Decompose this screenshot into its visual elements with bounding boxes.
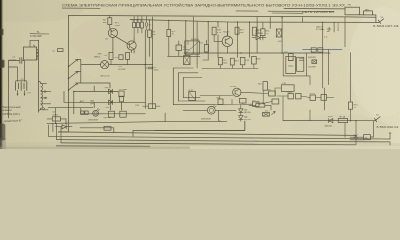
- resistor R12: [126, 52, 130, 59]
- diode VD9: [239, 109, 243, 113]
- resistor R17b: [256, 104, 265, 107]
- svg-text:КТ315Б: КТ315Б: [118, 69, 126, 71]
- svg-text:КД202В: КД202В: [308, 57, 316, 59]
- svg-text:«ХЛ»: «ХЛ»: [277, 41, 283, 43]
- svg-text:КД105Б: КД105Б: [325, 125, 333, 127]
- resistor R25: [218, 99, 223, 104]
- diode column wire: [240, 105, 242, 122]
- capacitor C17: [311, 48, 316, 52]
- regulator DA2 box: [286, 56, 296, 73]
- diode VD13: [296, 94, 302, 99]
- socket XS1: [364, 135, 371, 140]
- bottom row wires: [81, 113, 146, 115]
- diode VD3: [64, 100, 145, 104]
- svg-text:СХЕМА ЭЛЕКТРИЧЕСКАЯ ПРИНЦИПИАЛ: СХЕМА ЭЛЕКТРИЧЕСКАЯ ПРИНЦИПИАЛЬНАЯ УСТРО…: [62, 4, 346, 8]
- svg-text:„АЗУ”: „АЗУ”: [78, 100, 84, 103]
- resistor R21: [263, 82, 267, 91]
- capacitor C1: [9, 58, 24, 64]
- VT2 wires: [127, 39, 134, 54]
- capacitor C8: [176, 45, 182, 51]
- svg-text:3,6НКГЦ-0,45-1: 3,6НКГЦ-0,45-1: [2, 113, 20, 116]
- capacitor C2: [58, 49, 64, 52]
- resistor R11c: [204, 45, 208, 53]
- svg-text:КС156А: КС156А: [316, 28, 324, 31]
- battery GB1 cells: [16, 82, 27, 91]
- resistor R27: [269, 91, 276, 96]
- resistor R17: [108, 111, 114, 117]
- small parts above C16: [263, 88, 281, 95]
- socket wires: [350, 137, 364, 140]
- wires mid-bottom: [48, 83, 121, 114]
- svg-text:К142ЕН: К142ЕН: [308, 67, 316, 69]
- right bus verticals: [310, 110, 356, 144]
- svg-text:R27: R27: [268, 89, 271, 91]
- paper stains: [0, 0, 83, 22]
- svg-text:2к: 2к: [354, 107, 356, 109]
- left bus wire: [8, 61, 10, 119]
- arrow mark: [272, 111, 276, 114]
- fuse FU2: [338, 118, 347, 122]
- capacitor C5: [145, 67, 152, 69]
- svg-text:С6 10мк: С6 10мк: [119, 89, 127, 91]
- svg-text:VД12: VД12: [288, 92, 292, 94]
- band wires: [200, 92, 334, 104]
- svg-text:6,8к: 6,8к: [240, 32, 244, 34]
- capacitor C15: [253, 102, 260, 107]
- lamp wires: [109, 64, 153, 66]
- plug pin arrow X3: [374, 117, 380, 122]
- svg-text:R4: R4: [132, 21, 134, 23]
- capacitor C14: [299, 59, 303, 61]
- capacitor C4: [146, 16, 148, 30]
- bottom of regulator wires: [283, 53, 310, 85]
- resistor R15b: [261, 29, 265, 36]
- switch SA1 contact arrows: [69, 60, 78, 90]
- svg-text:КД105Б: КД105Б: [244, 112, 252, 114]
- LED HL2: [93, 110, 99, 116]
- frame top wire: [69, 15, 377, 17]
- svg-text:ХЗ.: ХЗ.: [105, 39, 108, 41]
- resistor R9: [109, 52, 113, 59]
- capacitor C16: [281, 85, 294, 92]
- bus end hooks right: [389, 133, 391, 145]
- vertical drop wires from frame top: [193, 17, 345, 60]
- svg-text:4,7к: 4,7к: [265, 111, 269, 113]
- resistor R26: [240, 98, 247, 103]
- svg-text:А3,5-0,26: А3,5-0,26: [101, 74, 111, 77]
- svg-text:АЛ307БМ: АЛ307БМ: [88, 119, 98, 122]
- left edge blobs: [0, 29, 3, 35]
- resistor R22: [289, 54, 294, 61]
- svg-text:VД11: VД11: [328, 116, 334, 118]
- x junction mark: [354, 135, 357, 138]
- wire row2: [203, 59, 208, 61]
- bottom right wire row: [283, 120, 375, 122]
- diode VD2: [74, 89, 118, 93]
- resistor R29: [310, 95, 316, 100]
- svg-text:R29 1к: R29 1к: [310, 93, 316, 95]
- battery top bar: [16, 80, 27, 82]
- resistor R12b: [167, 29, 171, 36]
- zener VD5: [327, 27, 331, 31]
- svg-text:КС156А: КС156А: [337, 24, 340, 32]
- svg-text:R25: R25: [217, 97, 220, 99]
- tap terminal circles: [44, 91, 46, 93]
- wires around R8 R12 C8: [150, 20, 201, 68]
- resistor R16: [119, 96, 123, 102]
- svg-text:П308: П308: [115, 25, 121, 27]
- wire above light band: [303, 48, 342, 50]
- svg-text:АЛ307БМ: АЛ307БМ: [201, 118, 211, 121]
- svg-text:С15: С15: [252, 100, 255, 102]
- svg-text:75: 75: [172, 33, 174, 35]
- svg-text:6.563.027-01: 6.563.027-01: [373, 25, 400, 28]
- svg-text:20мк: 20мк: [154, 70, 159, 72]
- transistor VT1: [108, 28, 117, 37]
- transistor VT4: [233, 88, 241, 96]
- capacitor C3: [52, 117, 60, 121]
- nested corner wires right of middle: [173, 68, 183, 105]
- diode VD4: [56, 125, 72, 129]
- resistor R18: [120, 111, 126, 117]
- right verticals: [307, 22, 351, 110]
- transformer T1 secondary winding: [39, 81, 43, 110]
- svg-text:50мк: 50мк: [223, 62, 228, 64]
- IC DA1 box: [185, 41, 200, 54]
- VT3 wires: [214, 33, 227, 53]
- svg-text:элемент: элемент: [2, 109, 13, 112]
- paper background: [0, 0, 400, 149]
- transformer T1 primary: [24, 47, 37, 60]
- bus source verticals: [48, 123, 61, 143]
- resistor R4: [133, 23, 136, 28]
- box with X F3: [312, 60, 317, 64]
- capacitor C7a: [81, 111, 84, 114]
- primary vertical wire: [38, 40, 40, 112]
- capacitor C12: [218, 57, 222, 64]
- svg-text:5.702.008: 5.702.008: [30, 34, 42, 38]
- bottom bus wires: [48, 121, 390, 146]
- plug pin arrow X2: [378, 19, 384, 24]
- relay box K1: [189, 92, 196, 101]
- capacitor C13: [240, 57, 245, 64]
- svg-text:Д9Б: Д9Б: [90, 103, 95, 105]
- wire box bottom left: [104, 126, 111, 130]
- svg-text:56к: 56к: [152, 34, 155, 36]
- diode VD7: [252, 35, 266, 39]
- second top bus wire: [130, 19, 379, 22]
- svg-text:КТ814: КТ814: [230, 86, 237, 88]
- resistor R8: [148, 30, 152, 37]
- diode VD11: [329, 119, 333, 123]
- resistor R30: [321, 95, 327, 101]
- svg-text:0,047мк: 0,047мк: [9, 59, 17, 61]
- resistor R19: [230, 58, 234, 65]
- T1 designator fraction bar: [30, 33, 49, 35]
- junction wires lower-left: [47, 108, 165, 132]
- mains wire L1: [284, 8, 345, 10]
- svg-text:6.563.032-01: 6.563.032-01: [377, 126, 400, 129]
- fuse FU1: [364, 11, 373, 15]
- wire fuse to corner: [360, 15, 376, 23]
- svg-text:ХТ1: ХТ1: [27, 93, 30, 95]
- switch common wire: [78, 60, 101, 84]
- svg-text:VД5 ХХ: VД5 ХХ: [316, 26, 324, 28]
- plug XP1: [345, 7, 360, 15]
- svg-text:ПР 4А: ПР 4А: [339, 115, 346, 118]
- box with X S2: [184, 56, 190, 65]
- R23 wires: [350, 109, 352, 121]
- resistor R10: [212, 27, 216, 35]
- box with X F2: [276, 29, 281, 37]
- capacitor C6: [119, 91, 124, 97]
- battery feed wires: [9, 60, 25, 81]
- svg-text:ХТ2: ХТ2: [20, 79, 23, 81]
- svg-text:К142ЕН: К142ЕН: [191, 39, 199, 41]
- resistor R20: [252, 56, 257, 64]
- resistor R7: [140, 22, 143, 28]
- mid vertical wires: [145, 17, 152, 109]
- light correction band: [281, 46, 345, 52]
- resistor R23: [348, 102, 352, 109]
- frame left vertical wire: [68, 15, 70, 131]
- secondary tap wires: [41, 84, 51, 110]
- diode VD12: [288, 94, 294, 99]
- resistor R13: [235, 27, 239, 34]
- svg-text:П213Б: П213Б: [223, 32, 230, 34]
- transistor VT2: [127, 41, 136, 50]
- capacitor C18: [318, 48, 323, 52]
- wire under net label: [272, 12, 303, 14]
- title underline: [62, 8, 334, 12]
- svg-text:КД105Б: КД105Б: [103, 117, 111, 119]
- battery leads with arrows: [18, 90, 25, 95]
- svg-text:С4: С4: [148, 24, 150, 26]
- resistor R11: [119, 55, 123, 60]
- lamp HL1: [101, 61, 109, 69]
- resistor R28: [272, 99, 279, 104]
- long mid horizontal wire: [184, 52, 330, 54]
- svg-text:„провод мин В”: „провод мин В”: [2, 118, 22, 123]
- transistor VT3: [222, 36, 233, 47]
- row2 connect wires: [202, 64, 258, 69]
- resistor R5: [136, 23, 139, 28]
- svg-text:4,7к: 4,7к: [217, 32, 221, 34]
- svg-text:СЕТЬ 127/220 ВЛ: СЕТЬ 127/220 ВЛ: [302, 10, 334, 14]
- svg-text:КЦ402А: КЦ402А: [255, 32, 263, 35]
- resistor R14: [148, 104, 155, 109]
- svg-text:R7: R7: [140, 20, 142, 22]
- bottom edge shade: [0, 147, 190, 149]
- VT1 wires: [113, 36, 127, 52]
- svg-text:МН6,3: МН6,3: [94, 56, 101, 58]
- resistor R15: [252, 27, 256, 35]
- svg-text:R5: R5: [136, 21, 138, 23]
- LED HL3: [207, 106, 215, 114]
- wires around HL3: [155, 105, 271, 130]
- svg-text:2200м: 2200м: [52, 114, 59, 116]
- wire drop c16: [282, 97, 284, 121]
- diode VD10: [239, 116, 243, 120]
- svg-text:0,25мк: 0,25мк: [183, 49, 189, 51]
- resistor R2 top: [108, 18, 112, 25]
- left dark scan edge: [0, 0, 4, 149]
- svg-text:R17 510: R17 510: [256, 102, 263, 104]
- wire to socket XS1: [370, 121, 373, 137]
- capacitor C7b: [85, 111, 88, 114]
- box with X F4: [263, 113, 270, 117]
- svg-text:R14: R14: [136, 105, 139, 107]
- svg-text:КД105Б: КД105Б: [244, 119, 252, 121]
